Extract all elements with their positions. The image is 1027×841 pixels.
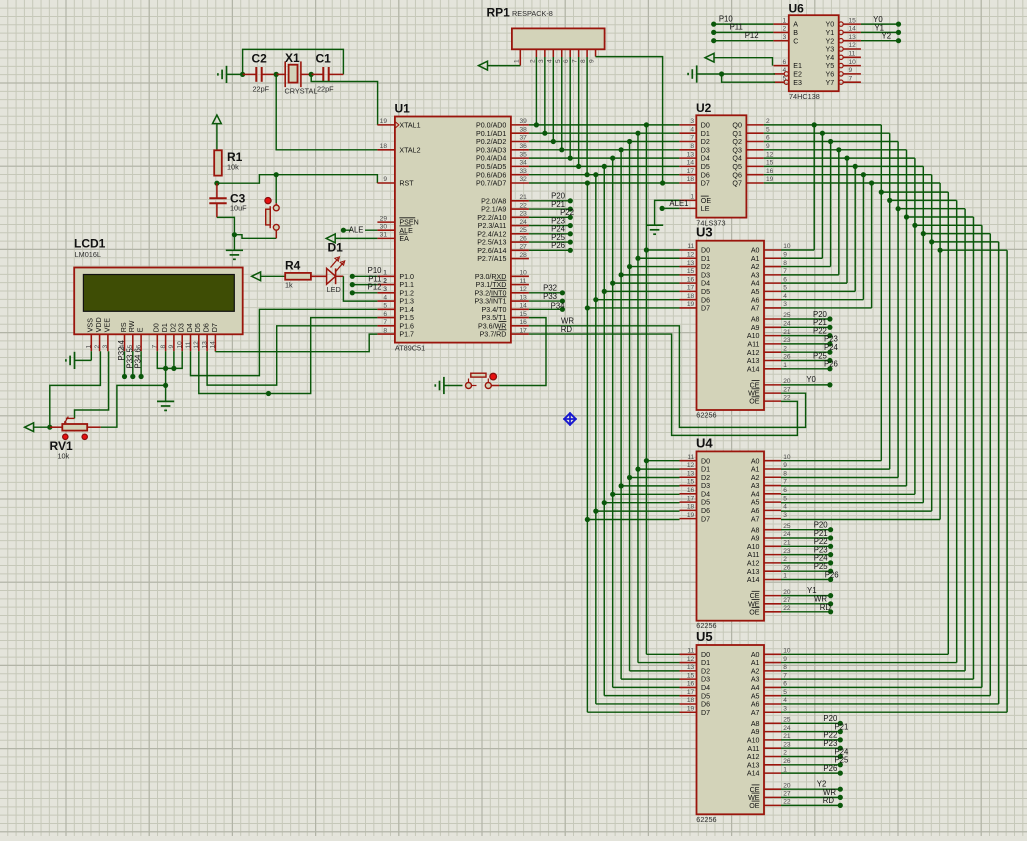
- svg-text:D7: D7: [701, 709, 710, 717]
- node D5 wire junction: [266, 391, 271, 396]
- svg-text:10: 10: [520, 270, 528, 277]
- svg-text:27: 27: [520, 244, 528, 251]
- svg-text:8: 8: [783, 260, 787, 267]
- svg-text:24: 24: [783, 531, 791, 538]
- svg-text:A9: A9: [751, 324, 760, 332]
- net label P25 (U3): [781, 351, 833, 363]
- wire RP1 pin2 to AD0: [534, 57, 539, 128]
- wire XTAL2 net: [276, 74, 377, 149]
- svg-text:16: 16: [766, 168, 774, 175]
- svg-text:5: 5: [783, 689, 787, 696]
- net label P20 (U4): [781, 521, 833, 533]
- svg-text:6: 6: [766, 135, 770, 142]
- svg-text:D1: D1: [701, 659, 710, 667]
- svg-text:21: 21: [783, 733, 791, 740]
- svg-text:Y0: Y0: [826, 21, 835, 29]
- svg-text:A12: A12: [747, 349, 760, 357]
- svg-text:P3.5/T1: P3.5/T1: [482, 314, 507, 322]
- svg-text:9: 9: [383, 176, 387, 183]
- svg-text:7: 7: [572, 59, 579, 63]
- svg-text:30: 30: [380, 223, 388, 230]
- net label P20 (U1): [529, 192, 573, 204]
- svg-text:D0: D0: [701, 247, 710, 255]
- wire AD3 bus: [529, 147, 680, 679]
- svg-text:17: 17: [687, 285, 695, 292]
- svg-text:U4: U4: [696, 435, 713, 450]
- net label P20 (U3): [781, 310, 833, 322]
- svg-text:P12: P12: [745, 31, 759, 40]
- svg-text:26: 26: [783, 564, 791, 571]
- svg-text:A6: A6: [751, 296, 760, 304]
- svg-text:7: 7: [383, 319, 387, 326]
- net label Y0 (U6): [861, 15, 901, 27]
- svg-text:7: 7: [152, 345, 159, 349]
- net label P10 (U6 A): [711, 14, 773, 26]
- svg-text:36: 36: [520, 143, 528, 150]
- svg-text:A8: A8: [751, 526, 760, 534]
- svg-text:12: 12: [687, 462, 695, 469]
- svg-text:17: 17: [520, 327, 528, 334]
- svg-text:15: 15: [849, 17, 857, 24]
- svg-text:8: 8: [383, 327, 387, 334]
- svg-text:U1: U1: [395, 102, 411, 116]
- svg-text:20: 20: [783, 378, 791, 385]
- svg-text:D1: D1: [328, 241, 344, 255]
- svg-text:P1.5: P1.5: [399, 314, 414, 322]
- net label P24 (U5): [781, 747, 849, 759]
- svg-text:12: 12: [687, 656, 695, 663]
- svg-text:12: 12: [766, 151, 774, 158]
- capacitor C2: [243, 52, 277, 94]
- net label P25 (U5): [781, 756, 849, 768]
- svg-text:EA: EA: [399, 235, 409, 243]
- node LCD ground junction: [163, 383, 168, 388]
- svg-text:A13: A13: [747, 568, 760, 576]
- svg-text:P3.0/RXD: P3.0/RXD: [475, 273, 507, 281]
- svg-text:ALE: ALE: [349, 226, 364, 235]
- memory U5 62256: [680, 629, 791, 824]
- svg-text:15: 15: [687, 479, 695, 486]
- svg-text:20: 20: [783, 589, 791, 596]
- svg-text:P0.6/AD6: P0.6/AD6: [476, 171, 506, 179]
- svg-text:D6: D6: [701, 507, 710, 515]
- svg-text:P1.7: P1.7: [399, 331, 414, 339]
- wire A0 address net: [764, 122, 949, 654]
- svg-text:A10: A10: [747, 332, 760, 340]
- svg-text:A9: A9: [751, 728, 760, 736]
- svg-text:P2.2/A10: P2.2/A10: [477, 214, 506, 222]
- svg-text:A0: A0: [751, 247, 760, 255]
- net label P22 (U5): [781, 731, 843, 743]
- svg-text:5: 5: [783, 285, 787, 292]
- wire C3 bottom: [217, 217, 235, 234]
- net label P12 (U6 C): [711, 31, 773, 43]
- wire WR net: [529, 317, 806, 428]
- wire AD1 bus: [529, 131, 680, 663]
- wire AD6 bus: [529, 172, 680, 704]
- svg-text:18: 18: [687, 176, 695, 183]
- svg-text:P3.7/RD: P3.7/RD: [480, 331, 507, 339]
- svg-text:13: 13: [520, 294, 528, 301]
- svg-text:19: 19: [687, 705, 695, 712]
- svg-text:Q2: Q2: [732, 138, 742, 146]
- svg-text:9: 9: [168, 345, 175, 349]
- ground (LCD VSS): [66, 351, 91, 369]
- wire RD net: [529, 325, 798, 436]
- svg-text:A8: A8: [751, 720, 760, 728]
- svg-text:22: 22: [783, 605, 791, 612]
- svg-text:P3.4/T0: P3.4/T0: [482, 306, 507, 314]
- wire LCD D6 to P1.6: [207, 326, 377, 385]
- op-amp U1 AT89C51 microcontroller: [377, 102, 529, 353]
- svg-text:VSS: VSS: [87, 318, 95, 332]
- svg-text:16: 16: [520, 319, 528, 326]
- svg-text:A10: A10: [747, 737, 760, 745]
- svg-text:P1.6: P1.6: [399, 322, 414, 330]
- svg-text:Y0: Y0: [806, 375, 816, 384]
- svg-text:16: 16: [687, 276, 695, 283]
- svg-text:38: 38: [520, 126, 528, 133]
- svg-text:A2: A2: [751, 263, 760, 271]
- svg-text:21: 21: [520, 194, 528, 201]
- svg-text:D2: D2: [701, 138, 710, 146]
- ground (key): [435, 377, 462, 394]
- svg-text:5: 5: [766, 126, 770, 133]
- svg-text:E1: E1: [793, 62, 802, 70]
- net label P34 (LCD E): [134, 348, 144, 379]
- svg-text:18: 18: [687, 293, 695, 300]
- svg-text:XTAL1: XTAL1: [399, 122, 420, 130]
- svg-text:A12: A12: [747, 753, 760, 761]
- svg-text:Q3: Q3: [732, 146, 742, 154]
- svg-text:RP1: RP1: [487, 6, 511, 20]
- svg-text:25: 25: [783, 312, 791, 319]
- svg-text:A1: A1: [751, 466, 760, 474]
- svg-text:RS: RS: [120, 322, 128, 332]
- svg-text:29: 29: [380, 215, 388, 222]
- svg-text:CE: CE: [750, 382, 760, 390]
- svg-text:13: 13: [201, 341, 208, 349]
- svg-text:7: 7: [690, 135, 694, 142]
- svg-text:U2: U2: [696, 101, 712, 115]
- memory U3 62256: [680, 225, 791, 420]
- svg-text:3: 3: [783, 34, 787, 41]
- svg-text:XTAL2: XTAL2: [399, 146, 420, 154]
- net label P34 (U1): [529, 302, 565, 312]
- wire D1 to P1.3: [343, 276, 377, 301]
- svg-text:62256: 62256: [696, 815, 716, 824]
- svg-text:9: 9: [783, 251, 787, 258]
- svg-text:RW: RW: [128, 320, 136, 332]
- svg-text:6: 6: [783, 59, 787, 66]
- svg-text:1: 1: [383, 269, 387, 276]
- wire key to P3.5: [499, 318, 546, 386]
- ground (reset): [226, 235, 243, 260]
- svg-text:1: 1: [783, 362, 787, 369]
- svg-text:27: 27: [783, 597, 791, 604]
- svg-text:RST: RST: [399, 180, 414, 188]
- svg-text:A11: A11: [747, 341, 759, 349]
- svg-text:18: 18: [380, 143, 388, 150]
- wire A7 address net: [764, 180, 1007, 712]
- svg-text:18: 18: [687, 697, 695, 704]
- svg-text:A2: A2: [751, 474, 760, 482]
- svg-text:Y2: Y2: [882, 32, 892, 41]
- svg-text:32: 32: [520, 176, 528, 183]
- svg-text:Q4: Q4: [732, 155, 742, 163]
- wire A6 address net: [764, 172, 999, 704]
- svg-text:2: 2: [529, 59, 536, 63]
- svg-text:A14: A14: [747, 770, 760, 778]
- wire RP1 pin7 to AD5: [576, 57, 581, 169]
- svg-text:P3.1/TXD: P3.1/TXD: [476, 281, 507, 289]
- net label P21 (U3): [781, 318, 833, 330]
- svg-text:14: 14: [210, 341, 217, 349]
- net label P23 (U5): [781, 739, 843, 751]
- svg-text:23: 23: [520, 211, 528, 218]
- capacitor C3: [209, 183, 247, 217]
- svg-text:Q7: Q7: [732, 180, 742, 188]
- potentiometer RV1: [50, 417, 101, 461]
- svg-text:21: 21: [783, 540, 791, 547]
- svg-text:22pF: 22pF: [253, 85, 270, 94]
- net label RD (U4 OE): [781, 603, 833, 614]
- svg-text:D4: D4: [701, 684, 710, 692]
- net node P12 (U1): [350, 283, 387, 296]
- net label P23 (U1): [529, 216, 573, 228]
- decoder U6 74HC138: [773, 2, 861, 102]
- svg-text:23: 23: [783, 337, 791, 344]
- svg-text:16: 16: [687, 487, 695, 494]
- svg-text:ALE: ALE: [399, 227, 413, 235]
- net label P24 (U3): [781, 343, 839, 355]
- svg-text:VEE: VEE: [103, 318, 111, 332]
- svg-text:D4: D4: [701, 280, 710, 288]
- svg-text:OE: OE: [701, 197, 712, 205]
- svg-text:D7: D7: [211, 323, 219, 332]
- net label P32 (U1): [529, 284, 565, 296]
- svg-text:1: 1: [783, 766, 787, 773]
- svg-text:D5: D5: [701, 692, 710, 700]
- svg-text:A7: A7: [751, 515, 760, 523]
- wire button bottom: [234, 235, 276, 239]
- svg-text:Q5: Q5: [732, 163, 742, 171]
- wire VDD net: [50, 351, 101, 427]
- svg-text:A9: A9: [751, 535, 760, 543]
- svg-text:D6: D6: [203, 323, 211, 332]
- net label P22 (U1): [529, 208, 574, 220]
- svg-text:4: 4: [783, 504, 787, 511]
- svg-text:5: 5: [555, 59, 562, 63]
- svg-text:8: 8: [783, 664, 787, 671]
- svg-text:Y6: Y6: [826, 71, 835, 79]
- svg-text:D5: D5: [701, 288, 710, 296]
- node X1-C1 junction: [309, 72, 314, 77]
- svg-text:9: 9: [766, 143, 770, 150]
- svg-text:A3: A3: [751, 676, 760, 684]
- net label ALE (U1): [341, 226, 378, 235]
- svg-text:15: 15: [520, 311, 528, 318]
- svg-text:8: 8: [160, 345, 167, 349]
- svg-text:D6: D6: [701, 171, 710, 179]
- svg-text:2: 2: [383, 278, 387, 285]
- svg-text:17: 17: [687, 495, 695, 502]
- svg-text:14: 14: [849, 26, 857, 33]
- svg-text:D2: D2: [701, 263, 710, 271]
- wire gnd loop top: [243, 49, 344, 74]
- svg-text:Y4: Y4: [826, 54, 835, 62]
- svg-text:11: 11: [687, 243, 694, 250]
- svg-text:LM016L: LM016L: [75, 250, 101, 259]
- svg-text:D0: D0: [701, 651, 710, 659]
- svg-text:D5: D5: [701, 499, 710, 507]
- svg-text:A1: A1: [751, 255, 760, 263]
- svg-text:3: 3: [783, 705, 787, 712]
- svg-text:14: 14: [520, 303, 528, 310]
- svg-text:P26: P26: [551, 241, 565, 250]
- svg-text:A11: A11: [747, 551, 759, 559]
- svg-text:10: 10: [849, 59, 857, 66]
- svg-text:P11: P11: [730, 23, 743, 32]
- net label P25 (U4): [781, 562, 833, 574]
- wire A4 address net: [764, 156, 982, 688]
- svg-text:12: 12: [520, 286, 528, 293]
- wire RP1 pin6 to AD4: [568, 57, 573, 161]
- svg-text:P0.3/AD3: P0.3/AD3: [476, 146, 506, 154]
- svg-text:P2.7/A15: P2.7/A15: [477, 255, 506, 263]
- svg-text:CE: CE: [750, 592, 760, 600]
- net node P11 (U1): [350, 275, 387, 288]
- wire RV1 right to gnd net: [101, 385, 166, 427]
- svg-text:Y2: Y2: [826, 37, 835, 45]
- svg-text:B: B: [793, 29, 798, 37]
- svg-text:D4: D4: [701, 490, 710, 498]
- svg-text:10: 10: [177, 341, 184, 349]
- svg-text:12: 12: [193, 341, 200, 349]
- svg-text:P1.3: P1.3: [399, 298, 414, 306]
- svg-text:6: 6: [783, 681, 787, 688]
- ground (U2 OE): [646, 225, 663, 234]
- svg-text:2: 2: [783, 556, 787, 563]
- wire LCD D0-D3 bridge: [157, 351, 182, 371]
- wire U2 OE to ground: [655, 200, 680, 225]
- svg-text:13: 13: [687, 470, 695, 477]
- svg-text:15: 15: [687, 268, 695, 275]
- wire RP1 pin8 to AD6: [585, 57, 590, 177]
- svg-text:P2.0/A8: P2.0/A8: [481, 197, 506, 205]
- svg-text:A12: A12: [747, 560, 760, 568]
- svg-text:A11: A11: [747, 745, 759, 753]
- svg-text:11: 11: [185, 341, 192, 348]
- svg-text:D6: D6: [701, 701, 710, 709]
- wire E2/E3: [722, 74, 775, 82]
- svg-text:26: 26: [783, 354, 791, 361]
- net label P33 (LCD RW): [125, 347, 135, 379]
- svg-text:A8: A8: [751, 316, 760, 324]
- svg-text:C: C: [793, 37, 798, 45]
- svg-text:11: 11: [520, 278, 527, 285]
- wire VEE net: [75, 351, 109, 418]
- svg-text:A2: A2: [751, 667, 760, 675]
- svg-text:P0.5/AD5: P0.5/AD5: [476, 163, 506, 171]
- node RST riser junction: [274, 172, 279, 177]
- svg-text:RESPACK-8: RESPACK-8: [512, 9, 553, 18]
- svg-text:1: 1: [86, 345, 93, 349]
- svg-text:24: 24: [783, 321, 791, 328]
- wire LCD D7 to P1.7: [215, 334, 377, 352]
- net label P26 (U1): [529, 241, 573, 253]
- svg-text:Q0: Q0: [732, 122, 742, 130]
- svg-text:8: 8: [783, 470, 787, 477]
- memory U4 62256: [680, 435, 791, 630]
- svg-text:24: 24: [783, 725, 791, 732]
- node C3/button ground junction: [232, 232, 237, 237]
- svg-text:26: 26: [783, 758, 791, 765]
- svg-text:19: 19: [766, 176, 774, 183]
- wire RP1 pin4 to AD2: [551, 57, 556, 144]
- svg-text:5: 5: [783, 495, 787, 502]
- svg-text:D2: D2: [169, 323, 177, 332]
- svg-text:A0: A0: [751, 651, 760, 659]
- svg-text:OE: OE: [749, 802, 760, 810]
- resistor pack RP1 RESPACK-8: [487, 6, 605, 66]
- svg-text:23: 23: [783, 548, 791, 555]
- svg-text:8: 8: [580, 59, 587, 63]
- svg-text:E: E: [137, 327, 145, 332]
- svg-text:E2: E2: [793, 71, 802, 79]
- svg-text:A14: A14: [747, 365, 760, 373]
- resistor R1: [214, 150, 242, 176]
- net label Y1 (U4 CE): [781, 586, 833, 598]
- net label P24 (U1): [529, 225, 573, 237]
- svg-text:D3: D3: [701, 676, 710, 684]
- svg-text:21: 21: [783, 329, 791, 336]
- svg-text:D0: D0: [701, 122, 710, 130]
- svg-text:19: 19: [687, 512, 695, 519]
- net label Y1 (U6): [861, 23, 901, 35]
- svg-text:22: 22: [520, 202, 528, 209]
- net label P23 (U4): [781, 545, 833, 557]
- svg-text:Q6: Q6: [732, 171, 742, 179]
- wire AD5 bus: [529, 164, 680, 696]
- net label Y0 (U3 CE): [781, 375, 833, 387]
- svg-text:4: 4: [690, 126, 694, 133]
- svg-text:15: 15: [687, 672, 695, 679]
- svg-text:20: 20: [783, 782, 791, 789]
- svg-text:A0: A0: [751, 457, 760, 465]
- wire RST riser to button: [275, 175, 277, 204]
- svg-text:P0.1/AD1: P0.1/AD1: [476, 130, 506, 138]
- svg-text:6: 6: [383, 311, 387, 318]
- svg-text:9: 9: [783, 656, 787, 663]
- svg-text:P0.0/AD0: P0.0/AD0: [476, 122, 506, 130]
- svg-text:D2: D2: [701, 667, 710, 675]
- svg-text:CE: CE: [750, 786, 760, 794]
- crystal X1: [276, 51, 317, 96]
- svg-text:12: 12: [849, 42, 857, 49]
- net label WR (U4 WE): [781, 594, 833, 606]
- svg-text:A5: A5: [751, 499, 760, 507]
- net label P26 (U3): [781, 360, 838, 372]
- capacitor C1: [311, 52, 343, 94]
- svg-text:3: 3: [783, 301, 787, 308]
- svg-text:RD: RD: [561, 325, 573, 334]
- net label P23 (U3): [781, 335, 838, 347]
- ground (LCD data): [157, 401, 174, 410]
- wire RP1 pin9 to AD7: [596, 57, 666, 186]
- net label P26 (U4): [781, 570, 839, 582]
- svg-text:A10: A10: [747, 543, 760, 551]
